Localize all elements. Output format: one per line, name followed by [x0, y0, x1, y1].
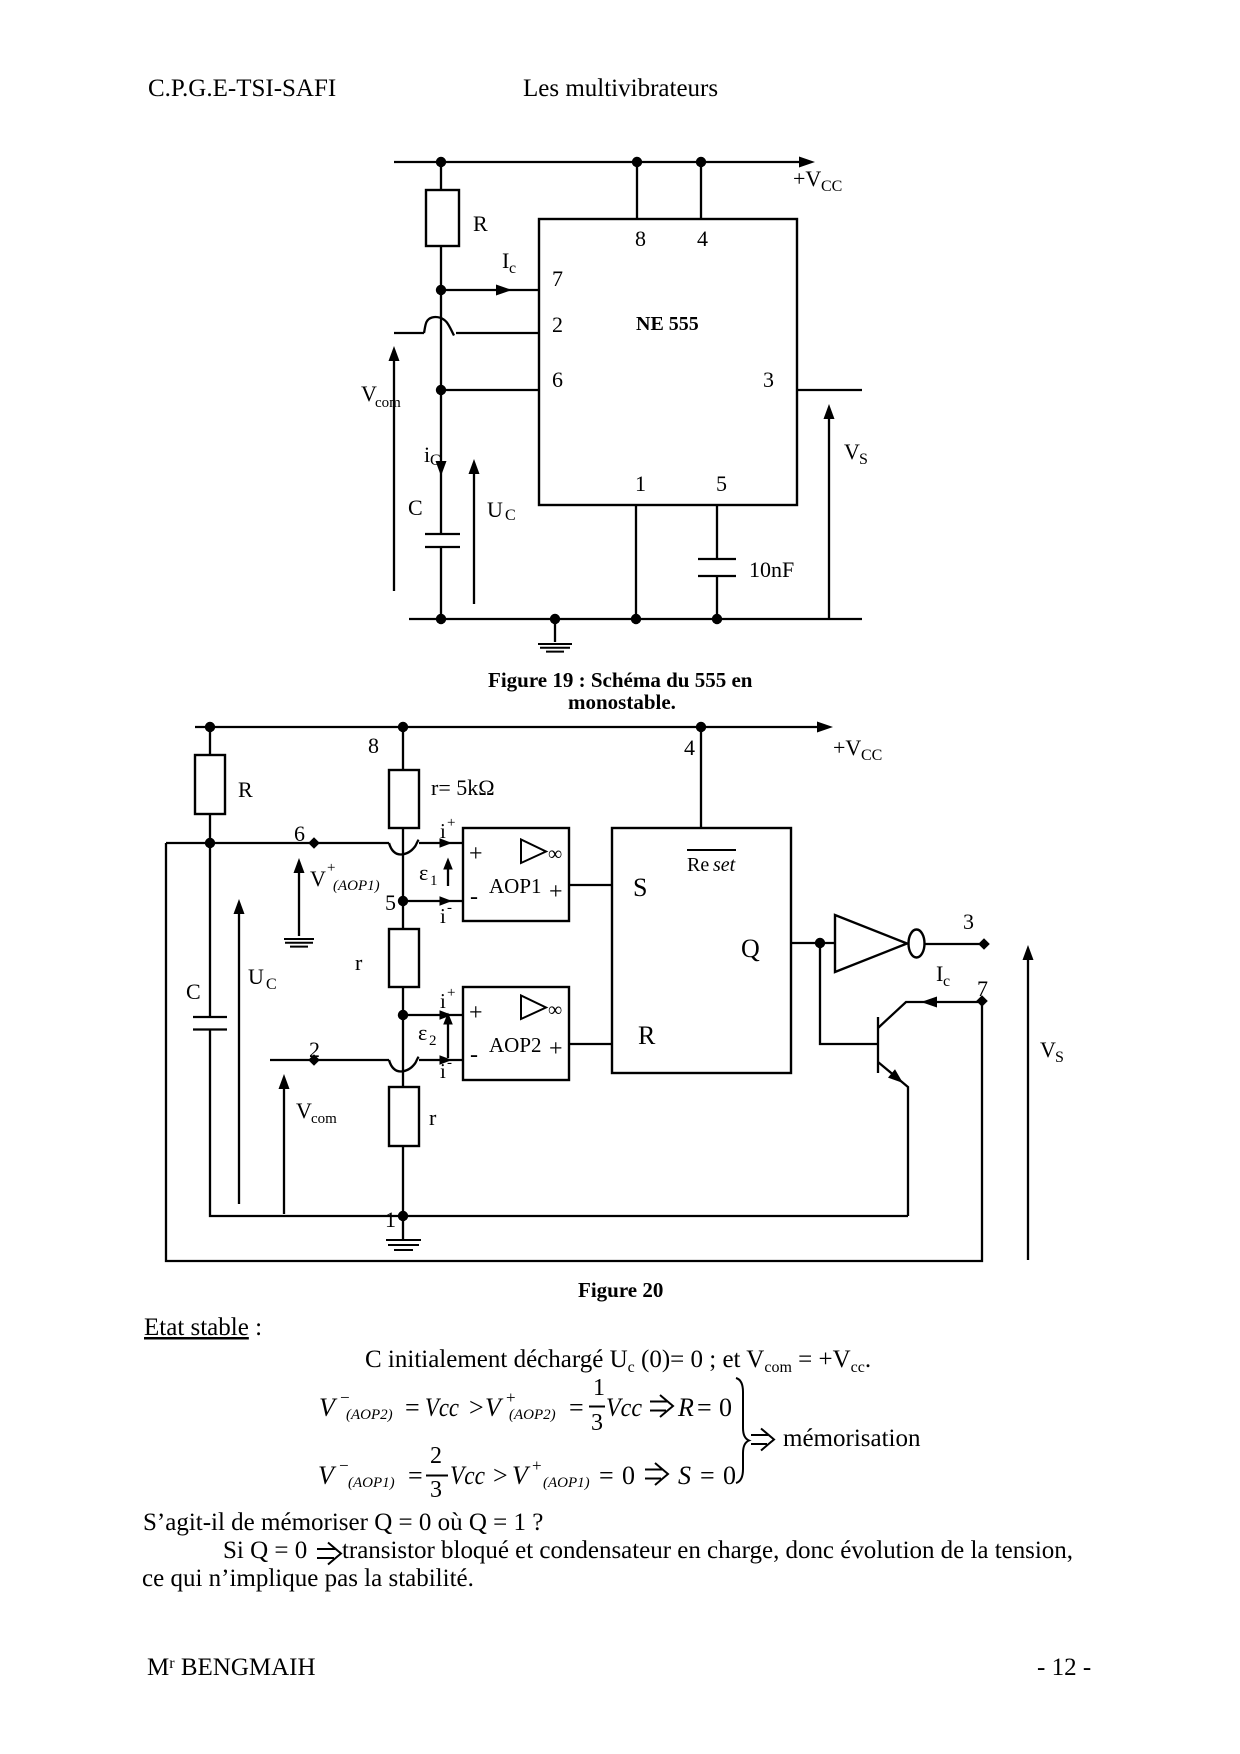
- svg-text:+: +: [506, 1388, 516, 1407]
- svg-text:+: +: [447, 985, 455, 1001]
- svg-text:Mr BENGMAIH: Mr BENGMAIH: [147, 1654, 316, 1681]
- svg-text:+: +: [469, 1000, 483, 1026]
- svg-text:NE 555: NE 555: [636, 313, 699, 335]
- svg-text:(AOP1): (AOP1): [348, 1475, 395, 1491]
- svg-text:C: C: [266, 976, 277, 993]
- svg-text:C: C: [408, 495, 423, 520]
- svg-text:3: 3: [963, 909, 974, 934]
- svg-text:S: S: [859, 451, 868, 468]
- svg-text:>: >: [469, 1393, 484, 1422]
- svg-text:3: 3: [763, 367, 774, 392]
- svg-text:−: −: [339, 1456, 349, 1475]
- svg-text:U: U: [487, 497, 503, 522]
- svg-text:+: +: [549, 879, 563, 905]
- svg-text:(AOP1): (AOP1): [333, 878, 380, 894]
- svg-text:∞: ∞: [548, 999, 562, 1021]
- svg-text:ε: ε: [419, 860, 428, 885]
- svg-text:Etat stable :: Etat stable :: [144, 1314, 262, 1341]
- svg-text:+V: +V: [793, 166, 821, 191]
- svg-text:6: 6: [552, 367, 563, 392]
- svg-text:10nF: 10nF: [749, 557, 794, 582]
- svg-text:∞: ∞: [548, 843, 562, 865]
- svg-text:R: R: [473, 211, 488, 236]
- svg-text:8: 8: [368, 733, 379, 758]
- svg-text:8: 8: [635, 226, 646, 251]
- svg-text:Vcc: Vcc: [606, 1393, 642, 1422]
- svg-text:Re: Re: [687, 854, 714, 876]
- svg-text:7: 7: [552, 266, 563, 291]
- svg-text:V: V: [844, 439, 860, 464]
- svg-text:0: 0: [719, 1393, 732, 1422]
- svg-text:=: =: [405, 1393, 420, 1422]
- svg-text:Vcc: Vcc: [450, 1461, 485, 1490]
- svg-text:=: =: [569, 1393, 584, 1422]
- svg-text:=: =: [700, 1461, 715, 1490]
- svg-text:CC: CC: [861, 747, 882, 764]
- svg-text:V: V: [512, 1461, 531, 1490]
- svg-text:Vcc: Vcc: [425, 1393, 459, 1422]
- svg-text:Figure 20: Figure 20: [578, 1278, 663, 1302]
- svg-text:ce qui n’implique pas la stabi: ce qui n’implique pas la stabilité.: [142, 1565, 474, 1592]
- svg-text:C.P.G.E-TSI-SAFI: C.P.G.E-TSI-SAFI: [148, 75, 336, 102]
- svg-text:1: 1: [593, 1375, 605, 1401]
- svg-text:V: V: [318, 1461, 337, 1490]
- svg-text:R: R: [677, 1393, 694, 1422]
- svg-text:>: >: [493, 1461, 508, 1490]
- svg-text:transistor bloqué et condensat: transistor bloqué et condensateur en cha…: [342, 1537, 1073, 1564]
- svg-text:Si Q = 0: Si Q = 0: [223, 1537, 307, 1564]
- svg-text:S’agit-il de mémoriser Q = 0 o: S’agit-il de mémoriser Q = 0 où Q = 1 ?: [143, 1509, 543, 1536]
- svg-text:(AOP2): (AOP2): [346, 1407, 393, 1423]
- svg-text:Figure 19 : Schéma du 555 en: Figure 19 : Schéma du 555 en: [488, 668, 753, 692]
- svg-text:V: V: [296, 1098, 312, 1123]
- svg-text:(AOP2): (AOP2): [509, 1407, 556, 1423]
- svg-text:C: C: [430, 452, 441, 469]
- svg-text:mémorisation: mémorisation: [783, 1425, 921, 1452]
- svg-text:4: 4: [684, 735, 695, 760]
- svg-text:-: -: [447, 1055, 452, 1071]
- svg-text:0: 0: [622, 1461, 635, 1490]
- svg-text:2: 2: [309, 1037, 320, 1062]
- svg-text:1: 1: [430, 873, 438, 889]
- svg-text:+: +: [327, 860, 335, 876]
- svg-text:S: S: [1055, 1049, 1064, 1066]
- svg-text:ε: ε: [418, 1020, 427, 1045]
- svg-text:AOP2: AOP2: [489, 1033, 542, 1057]
- svg-text:V: V: [310, 866, 326, 891]
- svg-text:V: V: [485, 1393, 504, 1422]
- svg-text:set: set: [713, 854, 736, 876]
- svg-text:i: i: [440, 989, 446, 1013]
- svg-text:=: =: [408, 1461, 423, 1490]
- svg-text:-: -: [470, 1042, 478, 1068]
- svg-text:2: 2: [430, 1443, 442, 1469]
- svg-text:i: i: [440, 904, 446, 928]
- svg-text:R: R: [238, 777, 253, 802]
- svg-text:2: 2: [552, 312, 563, 337]
- svg-text:- 12 -: - 12 -: [1037, 1654, 1091, 1681]
- svg-text:CC: CC: [821, 178, 842, 195]
- svg-text:-: -: [470, 884, 478, 910]
- svg-text:monostable.: monostable.: [568, 690, 676, 714]
- svg-text:i: i: [440, 819, 446, 843]
- svg-text:S: S: [633, 873, 647, 902]
- svg-text:3: 3: [430, 1477, 442, 1503]
- svg-text:+: +: [549, 1036, 563, 1062]
- svg-text:6: 6: [294, 821, 305, 846]
- svg-text:R: R: [638, 1021, 656, 1050]
- svg-text:C initialement déchargé Uc (0): C initialement déchargé Uc (0)= 0 ; et V…: [365, 1346, 871, 1376]
- svg-text:(AOP1): (AOP1): [543, 1475, 590, 1491]
- svg-text:+V: +V: [833, 735, 861, 760]
- svg-text:+: +: [447, 815, 455, 831]
- svg-text:−: −: [340, 1388, 350, 1407]
- svg-text:5: 5: [385, 890, 396, 915]
- svg-text:Q: Q: [741, 934, 760, 963]
- svg-text:2: 2: [429, 1033, 437, 1049]
- svg-text:+: +: [469, 841, 483, 867]
- svg-text:=: =: [697, 1393, 712, 1422]
- svg-text:i: i: [440, 1059, 446, 1083]
- svg-text:0: 0: [723, 1461, 736, 1490]
- svg-text:5: 5: [716, 471, 727, 496]
- svg-text:4: 4: [697, 226, 708, 251]
- svg-text:c: c: [943, 973, 950, 990]
- svg-text:com: com: [375, 395, 401, 411]
- svg-text:r: r: [429, 1105, 437, 1130]
- svg-text:r: r: [355, 950, 363, 975]
- svg-text:U: U: [248, 964, 264, 989]
- svg-text:+: +: [532, 1456, 542, 1475]
- svg-text:V: V: [1040, 1037, 1056, 1062]
- svg-text:C: C: [186, 979, 201, 1004]
- svg-text:Les multivibrateurs: Les multivibrateurs: [523, 75, 718, 102]
- svg-text:r= 5kΩ: r= 5kΩ: [431, 775, 495, 800]
- svg-text:1: 1: [385, 1207, 396, 1232]
- svg-text:3: 3: [591, 1410, 603, 1436]
- svg-text:V: V: [319, 1393, 338, 1422]
- svg-text:S: S: [678, 1461, 691, 1490]
- svg-text:=: =: [599, 1461, 614, 1490]
- svg-text:C: C: [505, 507, 516, 524]
- svg-text:com: com: [311, 1111, 337, 1127]
- svg-text:c: c: [509, 260, 516, 277]
- svg-text:AOP1: AOP1: [489, 874, 542, 898]
- svg-text:1: 1: [635, 471, 646, 496]
